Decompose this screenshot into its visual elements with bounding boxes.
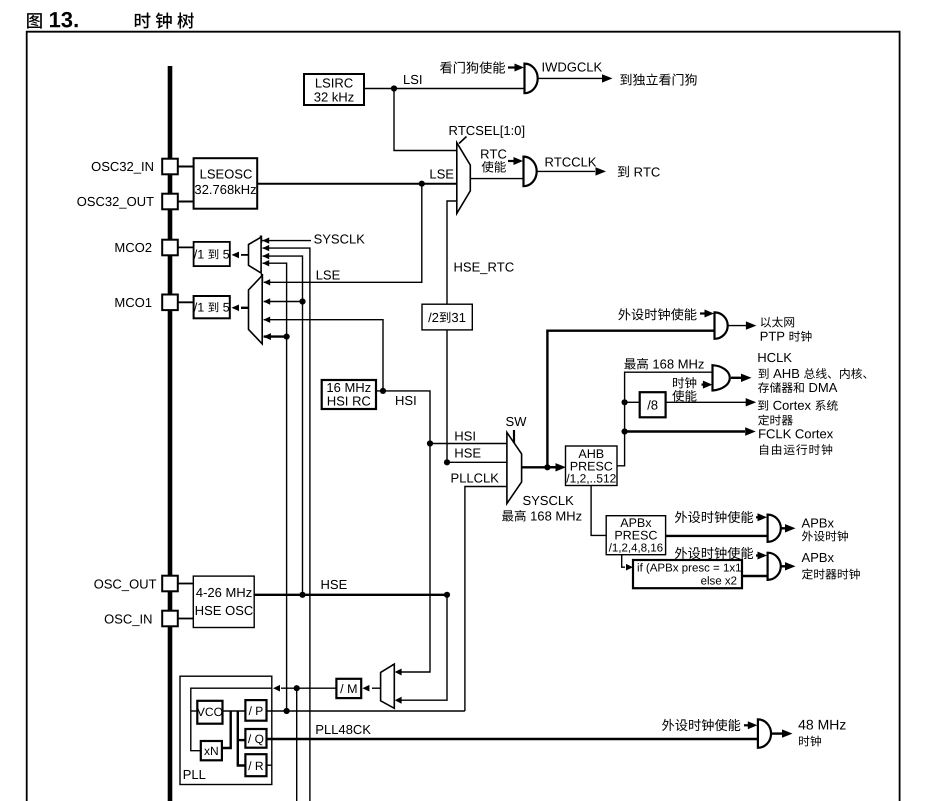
wire MCO1 in HSE [263,298,305,304]
label HSE at SW [455,448,480,457]
wire MCO2 in PLLI2S [262,245,310,801]
divider /2to31 box [422,304,472,330]
mux PLL select tick [392,664,394,672]
block VCO box [197,701,222,724]
and-gate APB timer [768,553,781,580]
wire PTP out [728,321,756,329]
wire MCO1 in LSE [263,184,421,286]
title figure number [50,12,78,28]
label to Cortex system [758,400,838,411]
junction SYSCLK [544,464,550,470]
label RTCSEL [450,126,525,138]
wire PLLCLK to SW [465,487,507,712]
wire HSI down to PLL mux [395,444,430,676]
wire HSE down to PLL mux [395,595,447,704]
wire AHB in [547,466,556,468]
wire SYSCLK to PTP gate [547,331,714,468]
title text [135,12,194,28]
wire HSE [254,594,447,596]
wire OSC32_IN to LSEOSC [178,166,194,168]
label LSIRC [316,78,353,87]
label HSE [322,580,347,589]
mux SW [507,432,522,503]
label PTP clock [761,331,812,342]
wire PLL internal input [191,688,272,751]
and-gate HCLK [713,365,730,390]
title figure label [27,13,42,29]
junction HSI a [380,388,386,394]
divider /Q box [245,729,266,748]
wire PLL mux out [362,685,380,692]
wire HSE_RTC divider in [446,330,448,462]
label HSE_RTC [455,262,514,274]
wire APBx to if box [622,555,633,571]
junction HSI b [427,440,433,446]
pin OSC32_OUT [162,194,178,210]
mux RTCSEL select tick [459,137,467,144]
label max 168MHz at SW [502,510,581,522]
wire VCO input stub [191,710,198,712]
label /M [340,684,356,693]
divider MCO1 /1to5 box [194,296,230,318]
junction /M out [294,685,300,691]
label APBx ratio [609,543,663,553]
wire MCO2 in PLL [262,260,286,711]
enable arrow APB2 [756,552,767,560]
wire OSC_IN pin [178,618,194,620]
and-gate PTP [715,312,728,338]
label ethernet [761,317,794,328]
label peripheral clocks [802,531,848,542]
wire RTCCLK out [537,167,606,175]
label LSI [404,75,421,84]
label enable [672,390,696,402]
label PLL48CK [316,725,370,734]
wire VCO out to dividers [223,710,246,712]
pin OSC_OUT [162,576,178,592]
wire /M out [273,685,336,692]
label LSE at MCO1 [317,270,340,279]
enable arrow RTC [508,157,523,165]
junction HSE end [444,592,450,598]
label periph clk enable PTP [618,308,696,320]
label SW [506,417,526,426]
label VCO [197,708,222,716]
label 16 MHz [327,383,370,392]
divider /M box [336,679,361,698]
pin MCO1 [162,295,178,311]
divider MCO2 /1to5 box [194,242,230,266]
label memory and DMA [758,382,837,393]
wire cortex systick [666,398,757,406]
label APBx PRESC [615,531,657,540]
mux RTCSEL [457,143,471,214]
condition if box [633,560,742,588]
wire OSC_OUT pin [178,583,194,585]
enable arrow HCLK [702,381,713,389]
wire LSI to RTCSEL mux [394,89,457,151]
label HSE OSC [196,606,253,615]
wire /Q stub [238,739,246,741]
label to independent watchdog [620,74,696,86]
wire MCO2 mux out [232,252,249,259]
junction HSE mco [299,592,305,598]
label to RTC [618,166,660,177]
label PLLCLK at SW [452,473,499,482]
junction LSI [391,85,397,91]
label OSC32_IN [92,162,153,174]
label IWDGCLK [543,62,602,71]
wire FCLK [625,427,756,435]
label RTCCLK [546,157,597,166]
label periph clk enable 48M [662,719,740,731]
mux MCO2 [249,237,262,273]
wire HSI [376,391,507,444]
wire APB periph out [781,524,796,532]
label free running clock [760,444,832,455]
wire MCO2 in SYSCLK [261,237,311,243]
prescaler AHB box [566,446,618,486]
wire APB timer out [781,562,796,570]
label APBx presc [620,518,651,527]
junction HSE at SW [444,459,450,465]
enable arrow IWDG [508,64,524,72]
label APBx timer [802,553,834,562]
label /1 to 5 MCO2 [194,249,229,259]
mux SW select tick [513,430,515,447]
label APBx peripheral [802,519,834,528]
pin OSC_IN [162,611,178,627]
wire HSE_RTC [447,201,457,304]
label LSE at mux [430,169,453,178]
label timer [758,415,793,426]
label /8 [647,400,657,410]
oscillator HSE OSC box [193,576,254,627]
label RTC enable [482,161,506,173]
and-gate IWDG [525,64,538,94]
wire RTCSEL mux out [470,178,523,180]
label 48M clock [799,736,821,747]
label clk [673,377,696,388]
junction LSE [419,181,425,187]
pin OSC32_IN [162,159,178,175]
and-gate 48MHz [758,719,771,747]
label /1 to 5 MCO1 [194,302,229,312]
wire MCO2 in HSE [262,253,302,595]
label FCLK Cortex [759,429,833,438]
label SYSCLK at MCO2 [314,234,365,243]
label timer clocks [802,569,860,580]
wire APBx out [666,535,768,537]
junction PLLCLK mco [284,708,290,714]
block xN box [201,741,222,760]
wire LSE [257,183,457,185]
oscillator LSEOSC box [194,158,258,209]
label xN [204,747,218,755]
wire MCO1 in PLL [263,333,289,340]
label RTC [481,149,506,158]
wire SYSCLK out [522,463,566,471]
label MCO2 [115,243,151,252]
label HSI at SW [455,431,474,440]
label if condition [638,563,741,574]
label 32 kHz [314,92,353,102]
label to AHB bus [758,368,866,379]
label periph clk enable APB1 [675,511,753,523]
divider /R box [245,754,266,776]
junction FCLK [622,428,628,434]
label HSI RC [328,396,370,405]
wire AHB to APBx [591,486,606,536]
label periph clk enable APB2 [675,547,753,559]
wire AHB out [617,372,713,466]
enable arrow PTP [700,310,714,318]
label 48 MHz [798,720,845,730]
pin MCO2 [162,240,178,256]
divider /8 box [640,392,666,417]
wire HCLK out [731,374,752,382]
label AHB [578,449,603,458]
label AHB PRESC [571,462,613,471]
wire MCO1 in HSI [263,317,383,391]
wire MCO1 pin [178,301,194,303]
label else x2 [701,576,736,584]
label OSC_OUT [94,579,156,591]
wire PLL48CK [267,738,758,740]
wire 48M out [771,729,793,737]
prescaler APBx box [606,516,665,555]
wire LSI [364,88,524,90]
wire MCO1 mux out [232,305,249,312]
divider /P box [245,700,266,721]
wire MCO2 pin [178,246,194,248]
and-gate RTC [524,157,537,187]
oscillator HSI RC box [322,380,376,409]
label /P [249,706,263,715]
chip boundary bus line [168,66,173,801]
label OSC_IN [105,614,152,626]
oscillator LSIRC box [304,74,364,105]
mux MCO2 select tick [260,236,262,244]
enable arrow 48M [744,721,757,729]
label OSC32_OUT [77,197,153,209]
label MCO1 [115,298,151,307]
wire PLL feedback trunk [222,711,231,748]
enable arrow APB1 [756,513,767,521]
label /2to31 [428,312,465,323]
label AHB ratio [566,474,615,484]
label max 168MHz at HCLK [624,358,703,370]
junction div8 [622,399,628,405]
mux PLL source [381,664,395,708]
label watchdog enable [440,61,505,73]
label PLL [184,770,206,779]
wire IWDGCLK out [539,74,613,82]
wire /R stub [267,764,272,766]
block PLL box [180,676,272,784]
mux MCO1 [249,276,263,344]
label 4-26 MHz [196,588,251,597]
label /R [248,761,263,770]
label LSEOSC [201,169,252,178]
wire OSC32_OUT to LSEOSC [178,201,194,203]
wire to div8 [625,401,640,403]
wire HSE to SW [447,461,507,463]
label SYSCLK at SW [523,496,574,505]
label /Q [248,734,263,745]
mux MCO1 select tick [261,274,263,282]
label HSI at box [396,396,415,405]
label HCLK [758,353,791,362]
wire PLLCLK from /P [267,710,465,712]
wire if out [742,575,768,577]
and-gate APB peripheral [768,515,781,542]
wire to PLLI2S M [296,688,298,801]
label 32.768kHz [195,185,256,195]
wire PLL divider trunk [238,711,246,766]
